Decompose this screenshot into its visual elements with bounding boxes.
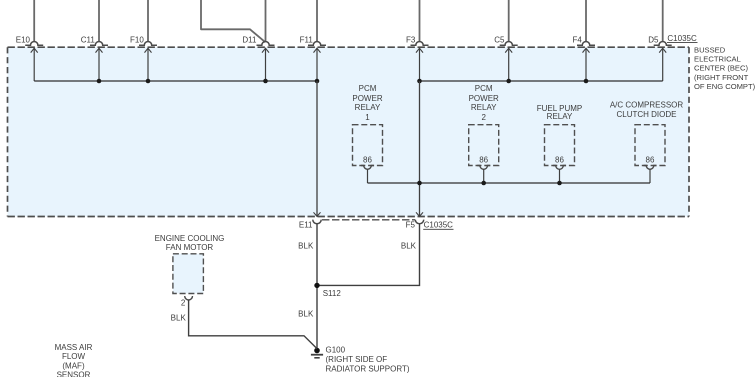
- svg-text:POWER: POWER: [469, 94, 499, 103]
- svg-text:BLK: BLK: [298, 309, 314, 318]
- svg-text:F10: F10: [130, 36, 144, 45]
- svg-text:C1035C: C1035C: [667, 34, 697, 43]
- svg-text:CLUTCH DIODE: CLUTCH DIODE: [616, 110, 676, 119]
- svg-text:(RIGHT FRONT: (RIGHT FRONT: [694, 73, 749, 82]
- svg-text:S112: S112: [323, 289, 342, 298]
- svg-text:F5: F5: [406, 221, 416, 230]
- svg-text:G100: G100: [326, 346, 346, 355]
- svg-text:F3: F3: [406, 36, 416, 45]
- svg-text:BLK: BLK: [298, 241, 314, 250]
- svg-text:D11: D11: [242, 36, 257, 45]
- svg-text:PCM: PCM: [359, 84, 377, 93]
- svg-text:FLOW: FLOW: [62, 352, 86, 361]
- svg-text:ELECTRICAL: ELECTRICAL: [694, 54, 741, 63]
- svg-text:86: 86: [479, 156, 488, 165]
- svg-text:E10: E10: [16, 36, 31, 45]
- svg-text:ENGINE COOLING: ENGINE COOLING: [155, 234, 225, 243]
- svg-text:FAN MOTOR: FAN MOTOR: [166, 243, 214, 252]
- svg-text:C1035C: C1035C: [424, 221, 454, 230]
- svg-text:BLK: BLK: [401, 241, 417, 250]
- svg-text:(RIGHT SIDE OF: (RIGHT SIDE OF: [326, 355, 388, 364]
- svg-text:SENSOR: SENSOR: [57, 371, 91, 377]
- svg-text:C11: C11: [81, 36, 96, 45]
- svg-text:RELAY: RELAY: [547, 112, 573, 121]
- svg-text:RADIATOR SUPPORT): RADIATOR SUPPORT): [326, 365, 410, 374]
- svg-text:RELAY: RELAY: [355, 103, 381, 112]
- svg-text:RELAY: RELAY: [471, 103, 497, 112]
- svg-text:(MAF): (MAF): [62, 361, 85, 370]
- svg-text:1: 1: [365, 113, 370, 122]
- svg-text:2: 2: [181, 299, 186, 308]
- svg-text:86: 86: [363, 156, 372, 165]
- svg-text:A/C COMPRESSOR: A/C COMPRESSOR: [610, 101, 684, 110]
- svg-text:F11: F11: [300, 36, 314, 45]
- svg-text:OF ENG COMPT): OF ENG COMPT): [694, 82, 756, 91]
- svg-text:BLK: BLK: [171, 313, 187, 322]
- svg-text:BUSSED: BUSSED: [694, 45, 726, 54]
- svg-text:F4: F4: [572, 36, 582, 45]
- svg-text:C5: C5: [494, 36, 505, 45]
- svg-text:86: 86: [555, 156, 564, 165]
- svg-text:PCM: PCM: [475, 84, 493, 93]
- svg-text:D5: D5: [648, 36, 659, 45]
- svg-text:CENTER (BEC): CENTER (BEC): [694, 64, 748, 73]
- svg-text:2: 2: [481, 113, 486, 122]
- svg-text:E11: E11: [299, 221, 313, 230]
- svg-text:POWER: POWER: [352, 94, 382, 103]
- svg-text:MASS AIR: MASS AIR: [55, 343, 93, 352]
- svg-text:86: 86: [646, 156, 655, 165]
